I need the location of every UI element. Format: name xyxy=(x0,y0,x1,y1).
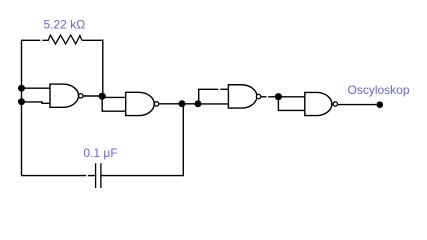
wire U1B output xyxy=(159,103,198,105)
node junction dot at U1A output / resistor xyxy=(99,93,106,100)
node junction dot on feedback bus upper xyxy=(18,85,25,92)
svg-text:Oscyloskop: Oscyloskop xyxy=(348,83,410,97)
wire left vertical feedback bus xyxy=(21,40,23,175)
wire lower input of U1C xyxy=(198,103,229,105)
nand gate U1A xyxy=(50,84,83,107)
wire lower input of U1A xyxy=(22,102,51,103)
wire step down to lower input of U1D xyxy=(278,97,305,111)
node junction dot to capacitor branch xyxy=(179,100,186,107)
wire U1C output stub to node xyxy=(268,96,278,98)
node junction dot to U1D inputs xyxy=(275,93,282,100)
capacitor C1 xyxy=(96,163,101,188)
wire U1D output to terminal xyxy=(338,104,380,106)
node junction dot to U1C inputs xyxy=(195,100,202,107)
svg-text:0.1 μF: 0.1 μF xyxy=(83,146,117,160)
wire bottom horizontal to capacitor xyxy=(21,175,86,177)
wire upper input of U1B xyxy=(102,96,126,98)
wire resistor to right vertical xyxy=(82,39,103,41)
node junction dot on feedback bus lower xyxy=(18,98,25,105)
wire upper input of U1A xyxy=(22,87,51,89)
wire upper input stub of U1C xyxy=(220,88,229,90)
node terminal dot Oscyloskop xyxy=(377,101,384,108)
nand gate U1B xyxy=(126,92,159,115)
nand gate U1C xyxy=(228,85,260,108)
wire step down to lower input of U1B xyxy=(102,96,126,111)
wire right vertical of resistor loop xyxy=(102,40,104,97)
wire U1A output xyxy=(83,95,102,97)
wire upper input of U1D xyxy=(278,96,305,98)
nand gate U1D xyxy=(305,92,338,115)
wire U1C output xyxy=(261,96,267,98)
resistor R1 xyxy=(42,35,82,44)
wire stub into capacitor left plate xyxy=(88,175,96,177)
wire branch up to upper input of U1C xyxy=(199,89,219,104)
wire capacitor right to vertical riser xyxy=(101,175,183,177)
svg-text:5.22 kΩ: 5.22 kΩ xyxy=(44,18,86,32)
wire top horizontal to resistor xyxy=(21,39,40,41)
wire right vertical riser to U1B output node xyxy=(182,104,184,177)
